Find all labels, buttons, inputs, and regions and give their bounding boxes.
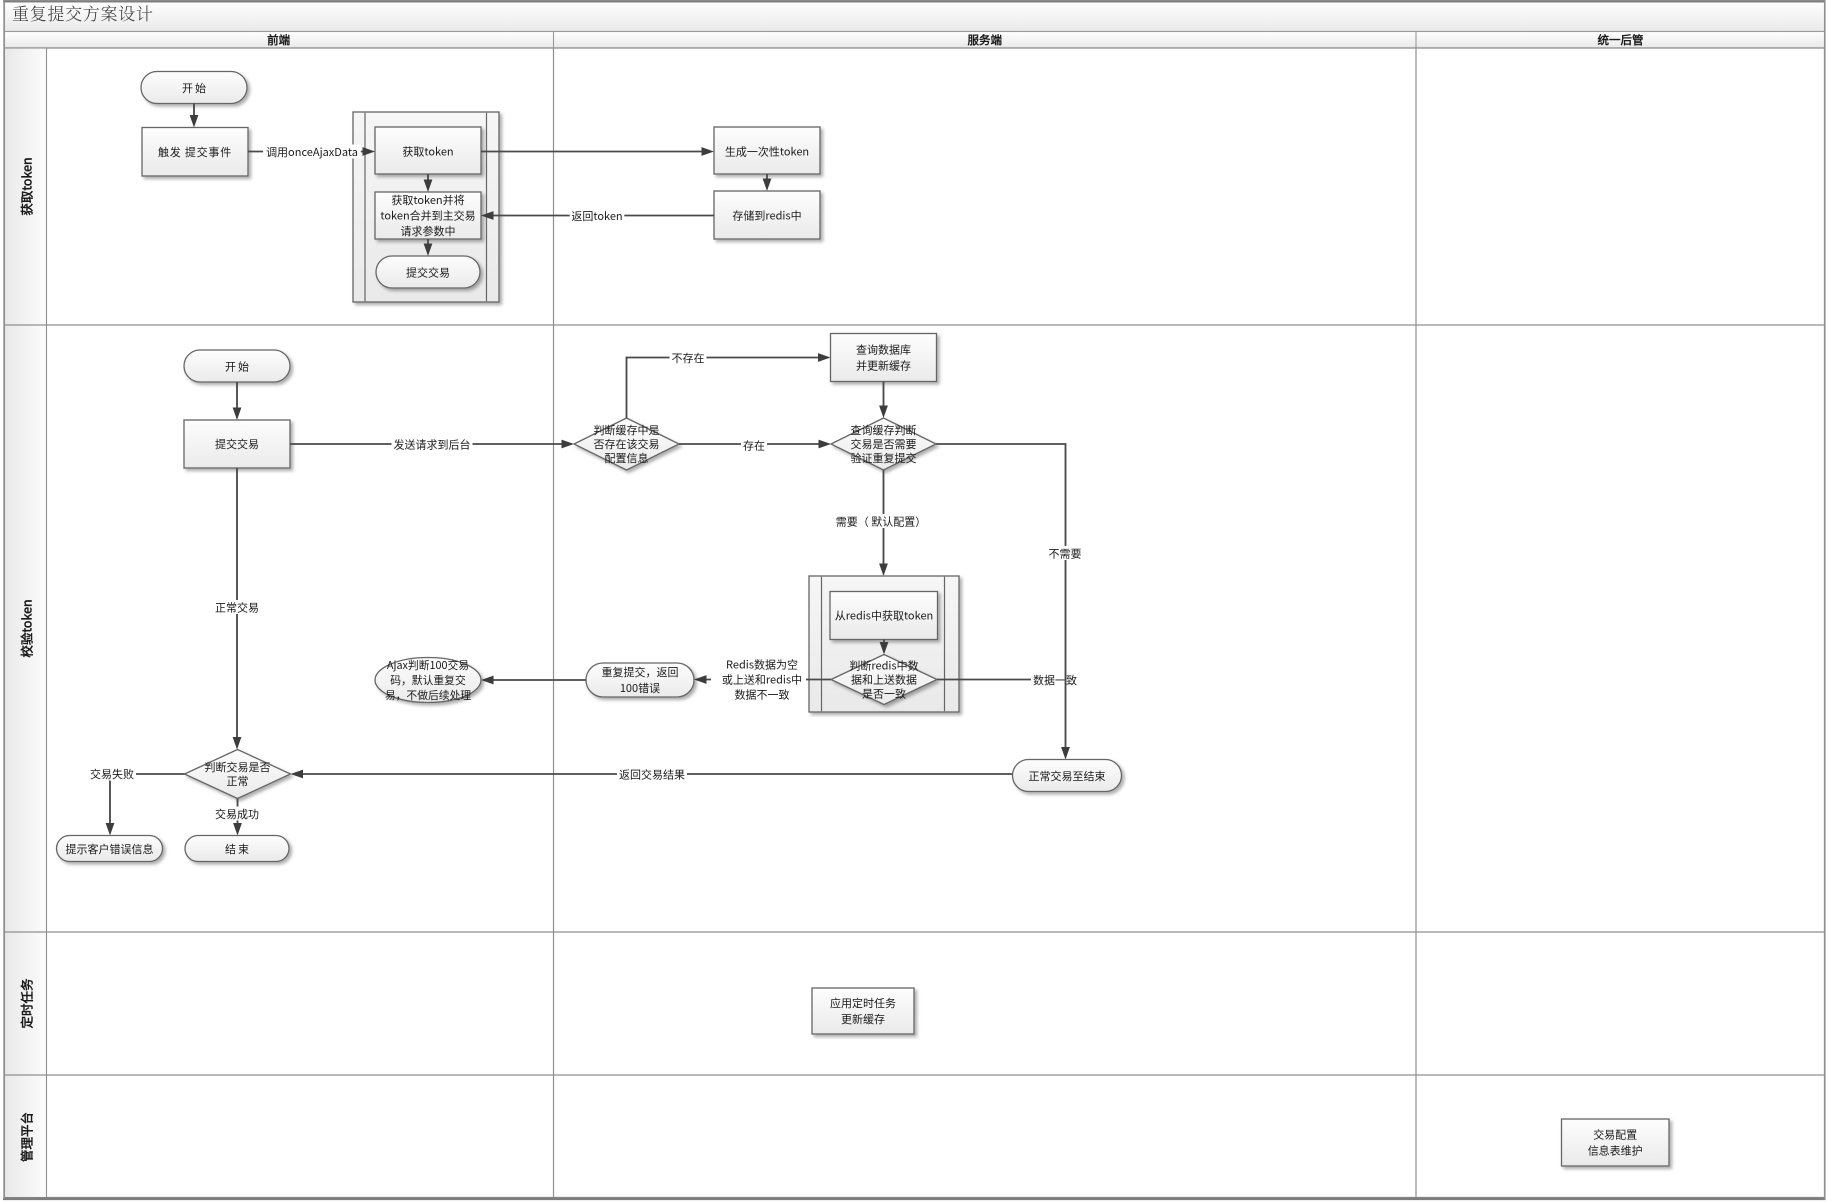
node E5 重复提交，返回100错误 xyxy=(586,663,694,697)
wire R5 to R3, label 返回token xyxy=(481,208,714,224)
svg-text:存在: 存在 xyxy=(743,438,765,454)
node R9 应用定时任务更新缓存 xyxy=(812,988,914,1034)
wire R6 to D1, label 发送请求到后台 xyxy=(290,437,574,453)
svg-text:定时任务: 定时任务 xyxy=(17,978,36,1030)
svg-text:返回token: 返回token xyxy=(571,208,622,224)
node R5 存储到redis中 xyxy=(714,191,820,239)
svg-text:返回交易结果: 返回交易结果 xyxy=(619,767,685,783)
svg-text:100错误: 100错误 xyxy=(620,680,660,696)
lane label 管理平台 xyxy=(17,1112,36,1162)
wire E4 to D4, label 返回交易结果 xyxy=(291,767,1013,783)
wire D4 to E8, label 交易成功 xyxy=(213,799,261,836)
svg-text:验证重复提交: 验证重复提交 xyxy=(851,450,917,466)
wire E5 to E6 xyxy=(481,676,586,685)
svg-text:正常交易: 正常交易 xyxy=(215,600,259,616)
node E6 Ajax判断100交易码，默认重复交易，不做后续处理 xyxy=(375,657,481,703)
svg-text:配置信息: 配置信息 xyxy=(605,450,649,466)
wire R1 to R2, label 调用onceAjaxData xyxy=(248,144,375,160)
subprocess container SP1 xyxy=(353,112,499,302)
node R3 获取token并将token合并到主交易请求参数中 xyxy=(375,192,481,239)
svg-text:开始: 开始 xyxy=(225,359,251,375)
svg-text:提示客户错误信息: 提示客户错误信息 xyxy=(66,841,154,857)
svg-text:易，不做后续处理: 易，不做后续处理 xyxy=(385,687,472,703)
header label 前端 xyxy=(267,32,290,48)
svg-text:获取token并将: 获取token并将 xyxy=(391,192,464,208)
svg-text:正常: 正常 xyxy=(227,773,249,789)
svg-text:结束: 结束 xyxy=(225,841,251,857)
svg-text:数据不一致: 数据不一致 xyxy=(735,687,790,703)
node R4 生成一次性token xyxy=(714,127,820,174)
svg-text:开始: 开始 xyxy=(182,80,208,96)
wire E1 to R1 xyxy=(190,104,199,128)
svg-text:应用定时任务: 应用定时任务 xyxy=(830,995,896,1011)
title bar xyxy=(5,0,1825,32)
svg-text:需要（ 默认配置）: 需要（ 默认配置） xyxy=(836,514,926,530)
svg-text:校验token: 校验token xyxy=(17,599,36,657)
svg-text:码，默认重复交: 码，默认重复交 xyxy=(390,672,466,688)
node E1 start 开始 xyxy=(141,72,247,104)
wire R8 to D3 xyxy=(880,640,889,655)
svg-text:token合并到主交易: token合并到主交易 xyxy=(380,208,475,224)
svg-text:并更新缓存: 并更新缓存 xyxy=(856,358,911,374)
wire D3 to vertical join, label 数据一致 xyxy=(937,672,1079,688)
node E3 start 开始 xyxy=(184,350,290,382)
decision D4 判断交易是否正常 xyxy=(185,750,291,799)
node E4 正常交易至结束 xyxy=(1013,760,1122,792)
decision D3 判断redis中数据和上送数据是否一致 xyxy=(831,655,937,705)
svg-text:交易成功: 交易成功 xyxy=(215,806,259,822)
svg-text:Redis数据为空: Redis数据为空 xyxy=(726,656,798,672)
subprocess container SP2 xyxy=(809,576,959,712)
node R6 提交交易 xyxy=(184,420,290,468)
svg-text:信息表维护: 信息表维护 xyxy=(1588,1143,1643,1159)
node E2 提交交易 xyxy=(376,256,480,288)
header label 统一后管 xyxy=(1598,32,1644,48)
node R10 交易配置信息表维护 xyxy=(1562,1119,1670,1166)
wire D2 to SP2, label 需要（ 默认配置） xyxy=(833,470,928,576)
decision D1 判断缓存中是否存在该交易配置信息 xyxy=(574,418,679,470)
svg-text:Ajax判断100交易: Ajax判断100交易 xyxy=(387,657,469,673)
decision D2 查询缓存判断交易是否需要验证重复提交 xyxy=(831,418,936,470)
wire R7 to D2 xyxy=(879,382,888,419)
node R1 触发 提交事件 xyxy=(142,128,248,177)
wire D4 to E7, label 交易失败 xyxy=(88,766,185,836)
wire R2 to R3 xyxy=(424,174,433,192)
svg-text:交易失败: 交易失败 xyxy=(90,766,134,782)
lane label 获取token xyxy=(17,157,36,215)
node R2 获取token xyxy=(375,127,481,174)
node R7 查询数据库并更新缓存 xyxy=(831,334,937,382)
wire D2 right to E4, label 不需要 xyxy=(936,444,1084,760)
wire D3 to E5, label Redis数据为空或上送和redis中数据不一致 xyxy=(694,656,831,704)
wire R2 to R4 xyxy=(481,147,714,156)
header label 服务端 xyxy=(968,32,1003,48)
svg-text:统一后管: 统一后管 xyxy=(1598,32,1644,48)
svg-text:触发 提交事件: 触发 提交事件 xyxy=(158,144,232,160)
svg-text:服务端: 服务端 xyxy=(968,32,1003,48)
svg-text:重复提交，返回: 重复提交，返回 xyxy=(602,664,679,680)
svg-text:不需要: 不需要 xyxy=(1049,546,1082,562)
wire D1 to R7, label 不存在 xyxy=(627,350,831,418)
svg-text:生成一次性token: 生成一次性token xyxy=(725,144,809,160)
svg-text:重复提交方案设计: 重复提交方案设计 xyxy=(12,0,154,25)
svg-text:管理平台: 管理平台 xyxy=(17,1112,36,1162)
wire E3 to R6 xyxy=(233,382,242,420)
svg-text:交易配置: 交易配置 xyxy=(1593,1127,1637,1143)
node E7 提示客户错误信息 xyxy=(57,836,163,862)
wire R4 to R5 xyxy=(763,174,772,191)
svg-text:查询数据库: 查询数据库 xyxy=(856,342,911,358)
wire R6 to D4, label 正常交易 xyxy=(213,468,261,750)
svg-text:调用onceAjaxData: 调用onceAjaxData xyxy=(266,144,358,160)
svg-text:从redis中获取token: 从redis中获取token xyxy=(835,608,934,624)
svg-text:更新缓存: 更新缓存 xyxy=(841,1011,885,1027)
svg-text:或上送和redis中: 或上送和redis中 xyxy=(722,672,802,688)
svg-text:获取token: 获取token xyxy=(402,144,453,160)
svg-text:存储到redis中: 存储到redis中 xyxy=(732,208,801,224)
wire R3 to E2 xyxy=(424,239,433,256)
svg-text:正常交易至结束: 正常交易至结束 xyxy=(1029,768,1106,784)
node E8 结束 xyxy=(185,836,289,862)
lane label 定时任务 xyxy=(17,978,36,1030)
svg-text:请求参数中: 请求参数中 xyxy=(401,223,456,239)
header row: lane column titles xyxy=(5,32,1825,49)
svg-text:是否一致: 是否一致 xyxy=(862,686,906,702)
lane label 校验token xyxy=(17,599,36,657)
node R8 从redis中获取token xyxy=(830,592,938,640)
svg-text:数据一致: 数据一致 xyxy=(1033,672,1077,688)
svg-text:提交交易: 提交交易 xyxy=(215,436,259,452)
svg-text:发送请求到后台: 发送请求到后台 xyxy=(394,437,471,453)
svg-text:获取token: 获取token xyxy=(17,157,36,215)
wire D1 to D2, label 存在 xyxy=(679,438,831,454)
svg-text:提交交易: 提交交易 xyxy=(406,265,450,281)
svg-text:不存在: 不存在 xyxy=(672,350,705,366)
svg-text:前端: 前端 xyxy=(267,32,290,48)
